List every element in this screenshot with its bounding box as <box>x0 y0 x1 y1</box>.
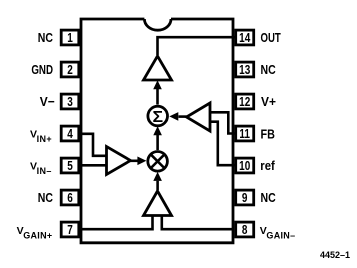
svg-text:NC: NC <box>38 190 54 205</box>
svg-text:2: 2 <box>67 64 73 77</box>
svg-text:ref: ref <box>260 158 275 173</box>
arrow input amp to multiplier <box>130 160 139 163</box>
wire pin 10 ref to feedback amp <box>209 122 235 166</box>
gain amplifier A3 (triangle up, VGAIN) <box>144 191 172 216</box>
wire pin 4 VIN+ to input amp <box>82 134 106 156</box>
svg-text:10: 10 <box>239 160 250 173</box>
arrow summer to output amp <box>156 88 159 105</box>
svg-text:NC: NC <box>261 62 277 77</box>
svg-text:12: 12 <box>239 96 250 109</box>
notch (pin-1 end indicator) <box>144 19 171 30</box>
svg-text:5: 5 <box>67 160 73 173</box>
pin 13 box <box>236 62 254 77</box>
svg-text:GND: GND <box>31 64 53 78</box>
wire pin 5 VIN- to input amp <box>82 164 106 167</box>
wire pin 7 VGAIN+ to gain amp <box>82 215 153 229</box>
wire pin 8 VGAIN- to gain amp <box>162 215 233 229</box>
svg-text:14: 14 <box>239 32 251 45</box>
pin 1 box <box>61 30 79 45</box>
pin 4 box <box>61 126 79 141</box>
arrow gain amp to multiplier <box>156 181 159 190</box>
svg-text:Σ: Σ <box>153 108 164 126</box>
svg-text:V+: V+ <box>261 95 276 110</box>
IC body U1 outline <box>81 19 233 243</box>
pin 9 box <box>236 190 254 205</box>
pin 10 box <box>236 158 254 173</box>
svg-text:9: 9 <box>242 192 248 205</box>
svg-text:1: 1 <box>67 32 73 45</box>
svg-text:8: 8 <box>242 224 248 237</box>
pin 3 box <box>61 94 79 109</box>
pin 6 box <box>61 190 79 205</box>
pin 7 box <box>61 222 79 237</box>
output amplifier A1 (triangle up) <box>144 56 172 80</box>
pin 2 box <box>61 62 79 77</box>
wire output amp to pin 14 <box>158 37 236 55</box>
svg-text:11: 11 <box>239 128 250 141</box>
pin 5 box <box>61 158 79 173</box>
svg-text:4: 4 <box>67 128 73 141</box>
svg-text:3: 3 <box>67 96 73 109</box>
arrow multiplier to summer <box>156 135 159 150</box>
multiplier X strokes <box>150 154 164 168</box>
feedback amplifier A4 (triangle left, FB/ref) <box>187 103 211 131</box>
pin 14 box <box>236 30 254 45</box>
pin 12 box <box>236 94 254 109</box>
pin 11 box <box>236 126 254 141</box>
summer SIGMA circle <box>148 106 168 126</box>
svg-text:NC: NC <box>261 190 277 205</box>
input amplifier A2 (triangle right, VIN) <box>107 147 131 175</box>
svg-text:NC: NC <box>38 30 54 45</box>
svg-text:FB: FB <box>261 126 276 141</box>
svg-text:IN–: IN– <box>37 166 52 176</box>
svg-text:7: 7 <box>67 224 73 237</box>
svg-text:6: 6 <box>67 192 73 205</box>
svg-text:GAIN–: GAIN– <box>266 231 295 241</box>
svg-text:OUT: OUT <box>261 32 281 46</box>
svg-text:GAIN+: GAIN+ <box>23 231 52 241</box>
multiplier circle with X <box>148 152 168 172</box>
svg-text:4452–1: 4452–1 <box>320 250 350 260</box>
svg-text:IN+: IN+ <box>37 134 52 144</box>
svg-text:V−: V− <box>40 95 55 110</box>
wire pin 11 FB to feedback amp <box>209 112 235 133</box>
arrow feedback amp to summer <box>179 115 187 118</box>
pin 8 box <box>236 222 254 237</box>
svg-text:13: 13 <box>239 64 250 77</box>
